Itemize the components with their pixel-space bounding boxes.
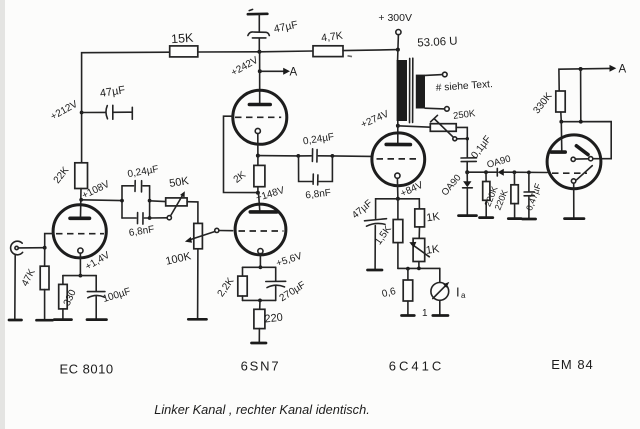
tube label EC8010 [59,362,113,377]
EM84 target bar [576,146,588,155]
wire node to 4,7K [259,50,313,53]
ground 100K [188,318,206,321]
wire 15K to node [198,51,260,53]
wire 6SN7a grid to lower anode (SRPP link) [224,116,258,192]
wire supply rail top-left [82,52,170,163]
label +84V [399,180,425,200]
ground OA90 [459,214,477,217]
wire cathode bottom bus [398,267,440,271]
svg-text:1K: 1K [426,211,442,225]
6SN7b grid dashed [239,230,284,232]
svg-text:1: 1 [422,308,428,319]
ground 220K first [480,216,493,219]
wire grid link [45,234,54,248]
label +242V [229,55,260,79]
ground input [9,319,22,322]
label +212V [49,99,80,123]
capacitor 0,24uF stage1 [122,164,159,192]
coupling loop stage1 right vertical [148,186,152,220]
node detector bus left [465,170,469,174]
EM84 ray line [577,166,593,180]
svg-text:1K: 1K [425,243,441,257]
wire detector bus [467,171,497,173]
wire 100K to ground [197,249,199,319]
6SN7b anode bar [250,210,276,214]
svg-text:I: I [456,285,460,300]
6C41C grid dashed [377,158,421,160]
ground EM84 cathode [565,217,585,220]
node A tap arrow first stage [258,67,298,79]
node coupling2 left [296,154,300,158]
capacitor 0,24uF stage2 [298,132,335,162]
EC8010 cathode [78,248,83,253]
tube label 6C41C [389,359,444,374]
wire 250K to cap node [456,127,469,157]
6SN7a anode bar [249,103,270,107]
6C41C anode bar [386,143,410,147]
capacitor 6,8nF stage2 loop [299,156,333,202]
capacitor 47uF cathode [350,198,398,270]
resistor 2K [232,156,265,193]
wire EM84 top rail [559,68,610,91]
svg-text:Linker Kanal , rechter Kanal i: Linker Kanal , rechter Kanal identisch. [154,402,370,417]
transformer secondary [416,75,425,109]
triode 6SN7b envelope [235,204,286,255]
6C41C cathode [395,173,400,178]
svg-text:A: A [619,64,627,76]
svg-text:EC 8010: EC 8010 [59,362,113,377]
wire node to tube V2 anode [259,52,261,104]
terminal +300V [378,12,412,50]
6SN7a cathode [255,128,260,133]
triode EC8010 envelope [53,205,106,258]
potentiometer 50K [150,175,191,220]
resistor 2,2K [216,267,248,300]
tube EM84 envelope [547,135,601,189]
EM84 grid dashed [552,172,587,174]
wire input ground leg [14,255,16,320]
6SN7a grid dashed [235,116,281,118]
label +148V [255,185,286,204]
label siehe Text [436,79,494,94]
ground 0,6 [402,314,415,317]
wire 6C41C cathode down [396,178,400,201]
node A tap EM84 [579,64,627,76]
transformer 53.06U primary [397,35,458,121]
trimmer 1K lower [409,238,440,268]
svg-text:6SN7: 6SN7 [241,359,281,374]
wire 6SN7b cathode down [243,254,276,269]
ground 47uF cathode [368,269,383,272]
wire input to grid node [18,247,44,249]
capacitor 100uF cathode [87,276,132,320]
wire EM84 target link [559,69,611,159]
resistor 330 [59,276,79,320]
tube label EM84 [551,357,594,372]
resistor 330K [532,91,566,122]
node grid 47K [43,246,47,250]
node below 2K [256,191,260,211]
wire anode node to 250K [398,126,430,127]
diode OA90 shunt [440,172,473,215]
svg-text:53.06 U: 53.06 U [417,35,458,49]
potentiometer 100K [164,223,218,267]
resistor 47K [20,248,49,320]
svg-text:EM 84: EM 84 [551,357,594,372]
resistor 220K second [493,170,519,218]
triode 6SN7a envelope [233,90,287,144]
node coupling2 right [331,154,335,158]
wire 330K into anode [560,122,563,152]
triode 6C41C envelope [372,133,425,186]
label +108V [80,179,111,202]
caption Linker Kanal [154,402,370,417]
svg-text:A: A [290,67,298,79]
wire coupling2 to 6C41C grid [332,155,372,158]
rheostat 250K [430,108,476,141]
capacitor 0,1uF [461,134,494,172]
resistor 0,6 [381,269,413,316]
EM84 cathode [571,179,575,219]
resistor 15K [170,31,198,57]
secondary terminal bottom [425,107,449,112]
meter Ia [431,268,466,315]
tube label 6SN7 [241,359,281,374]
wire loop to 50K [150,200,166,203]
wire V1 cathode [63,253,96,277]
svg-text:a: a [461,291,466,300]
wire 100K wiper to V2b grid [219,230,233,232]
capacitor 6,8nF stage1 [122,213,155,239]
secondary terminal top [425,72,447,77]
EM84 pin node 1 [571,157,575,161]
EC8010 grid dashed [56,233,104,235]
wire 4,7K to +300V node [343,50,398,51]
label 1 [422,308,428,319]
node +300V junction [396,48,400,61]
ground 330 [54,318,71,321]
wire 6SN7a cathode to coupling2 [258,155,298,157]
wire 6SN7a cathode down [256,134,260,158]
ground 47K [37,319,53,322]
transformer core [410,58,413,122]
EM84 anode bar [551,150,565,154]
svg-text:15K: 15K [171,31,195,47]
wire 22K to V1 anode [80,189,83,218]
capacitor 47uF left [82,84,133,119]
label +1,4V [84,250,113,273]
wire 50K to 100K [187,202,198,224]
resistor 4,7K [313,30,343,57]
ground 100uF [87,318,107,321]
EC8010 anode bar [70,217,90,221]
wire V1 anode to coupling loop [81,199,122,202]
resistor 220 [254,300,284,342]
svg-text:6C41C: 6C41C [389,359,444,374]
svg-text:+ 300V: + 300V [378,12,412,24]
node 47uF branch [80,111,84,115]
node 6C41C anode [396,121,400,144]
capacitor 47uF top (to chassis bar) [248,9,299,51]
coupling loop stage1 left vertical [120,186,124,218]
label +274V [359,109,390,131]
wire RC bottom bus [243,299,276,303]
resistor 1K upper [398,199,441,239]
input jack [11,241,23,255]
ground 220K second [508,217,521,220]
capacitor 0,47uF [524,171,543,219]
node V1 anode [79,198,83,202]
ground 0,47uF [522,218,535,221]
stray pen mark [348,55,353,58]
resistor 1,5K [373,199,403,269]
node junction +242V rail [257,50,261,54]
ground meter [433,314,448,317]
ground 220 [252,342,267,345]
6SN7b cathode [258,249,263,254]
diode OA90 series [486,153,548,176]
svg-text:220: 220 [264,312,284,326]
EM84 pin node 2 [575,157,593,161]
label +5,6V [275,251,304,270]
resistor 220K first [482,170,499,217]
resistor 22K [52,163,88,189]
capacitor 270uF [266,267,308,304]
